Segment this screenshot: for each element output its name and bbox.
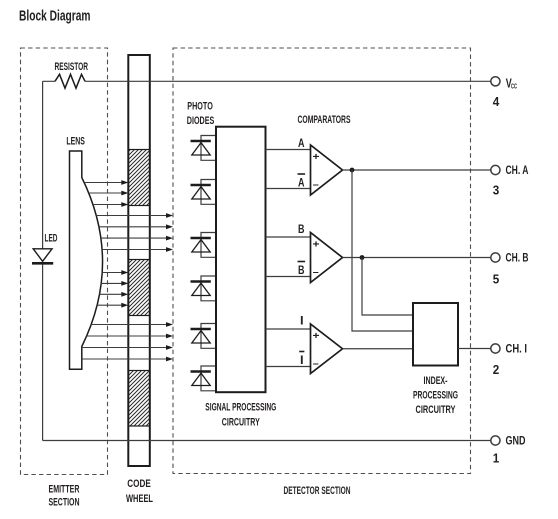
svg-text:WHEEL: WHEEL	[126, 493, 153, 505]
svg-text:DIODES: DIODES	[187, 115, 215, 127]
svg-text:A: A	[298, 176, 305, 190]
signal processing circuitry box	[216, 127, 266, 393]
light ray arrow (through code wheel) 7	[82, 345, 173, 350]
svg-text:+: +	[313, 330, 320, 342]
comparator U2	[311, 233, 343, 283]
wire: comparator B output to CH.B terminal	[343, 257, 491, 259]
svg-text:CIRCUITRY: CIRCUITRY	[222, 417, 260, 429]
svg-text:CODE: CODE	[127, 478, 151, 490]
junction dot on B output	[360, 255, 365, 260]
svg-text:EMITTER: EMITTER	[49, 484, 80, 496]
svg-text:5: 5	[493, 273, 500, 287]
index processing circuitry box	[413, 303, 458, 366]
svg-text:Block Diagram: Block Diagram	[19, 8, 91, 25]
svg-text:A: A	[298, 136, 305, 150]
light ray arrow (blocked at code wheel) 4	[102, 270, 128, 275]
light ray arrow (through code wheel) 4	[102, 247, 173, 252]
wire: signal box output B to comparator input	[266, 236, 311, 238]
light ray arrow (blocked at code wheel) 1	[84, 180, 128, 185]
svg-text:–: –	[313, 179, 319, 191]
code wheel hatched segment 1	[128, 150, 150, 206]
light ray arrow (through code wheel) 8	[82, 357, 173, 362]
wire: signal box output I-bar to comparator input	[266, 366, 311, 368]
svg-text:PHOTO: PHOTO	[187, 101, 213, 113]
svg-text:SECTION: SECTION	[49, 497, 80, 509]
terminal pin 3: CH. A	[491, 164, 529, 198]
light ray arrow (through code wheel) 6	[87, 334, 173, 339]
LED	[32, 249, 53, 263]
svg-text:GND: GND	[506, 435, 526, 448]
svg-text:–: –	[313, 358, 319, 370]
lens	[70, 151, 103, 369]
photodiode PD2	[191, 180, 217, 205]
svg-text:PROCESSING: PROCESSING	[413, 390, 458, 402]
terminal pin 1: GND	[491, 435, 526, 466]
light ray arrow (through code wheel) 3	[101, 236, 173, 241]
svg-text:LENS: LENS	[66, 136, 85, 148]
wire: signal box output A to comparator input	[266, 149, 311, 151]
wire: comparator I output to index box	[343, 348, 414, 350]
svg-text:4: 4	[493, 95, 500, 109]
comparator U3	[311, 324, 343, 374]
wire: signal box output I to comparator input	[266, 328, 311, 330]
svg-text:CH. A: CH. A	[506, 164, 529, 177]
wire: Vcc net from resistor to Vcc terminal	[43, 80, 491, 82]
svg-text:I: I	[300, 314, 304, 328]
light ray arrow (blocked at code wheel) 7	[97, 303, 128, 308]
svg-text:LED: LED	[45, 233, 58, 245]
comparator U1	[311, 145, 343, 195]
wire: signal box output A-bar to comparator input	[266, 188, 311, 190]
wire: left vertical from resistor down to LED anode	[42, 81, 44, 249]
photodiode PD5	[191, 324, 217, 349]
code wheel	[128, 55, 150, 466]
svg-text:INDEX-: INDEX-	[424, 375, 448, 387]
wire: comparator A output to CH.A terminal	[343, 169, 491, 171]
svg-text:2: 2	[493, 363, 500, 377]
light ray arrow (blocked at code wheel) 6	[100, 292, 129, 297]
resistor R (RESISTOR)	[55, 74, 85, 88]
svg-text:DETECTOR SECTION: DETECTOR SECTION	[284, 485, 351, 497]
svg-text:CH. I: CH. I	[506, 343, 528, 356]
svg-text:CH. B: CH. B	[506, 252, 529, 265]
svg-text:–: –	[313, 266, 319, 278]
light ray arrow (blocked at code wheel) 5	[101, 281, 128, 286]
light ray arrow (through code wheel) 1	[96, 213, 173, 218]
junction dot on A output	[350, 168, 355, 173]
terminal pin 5: CH. B	[491, 252, 529, 287]
svg-text:B: B	[298, 222, 305, 236]
wire: A branch down to index box	[352, 170, 413, 331]
wire: index box output to CH.I terminal	[458, 348, 491, 350]
wire: LED cathode down to GND rail	[42, 265, 44, 441]
svg-text:SIGNAL PROCESSING: SIGNAL PROCESSING	[205, 402, 276, 414]
light ray arrow (through code wheel) 2	[99, 224, 173, 229]
svg-text:RESISTOR: RESISTOR	[55, 61, 89, 73]
svg-text:I: I	[300, 353, 304, 367]
light ray arrow (blocked at code wheel) 3	[93, 202, 128, 207]
svg-text:CIRCUITRY: CIRCUITRY	[416, 404, 456, 416]
light ray arrow (through code wheel) 5	[91, 322, 173, 327]
photodiode PD3	[191, 233, 217, 258]
wire: B branch down to index box	[362, 258, 413, 316]
svg-text:+: +	[313, 239, 320, 251]
photodiode PD4	[191, 276, 217, 301]
wire: signal box output B-bar to comparator input	[266, 276, 311, 278]
svg-text:B: B	[298, 263, 305, 277]
photodiode PD1	[191, 136, 217, 161]
terminal pin 2: CH. I	[491, 343, 527, 378]
light ray arrow (blocked at code wheel) 2	[89, 191, 129, 196]
svg-text:CC: CC	[511, 82, 517, 91]
code wheel hatched segment 3	[128, 371, 150, 427]
detector section dashed box	[173, 48, 471, 474]
svg-text:COMPARATORS: COMPARATORS	[298, 114, 351, 126]
terminal pin 4: Vcc	[491, 77, 518, 110]
wire: GND rail to GND terminal	[43, 440, 491, 442]
photodiode PD6	[191, 366, 217, 391]
svg-text:3: 3	[493, 184, 500, 198]
code wheel hatched segment 2	[128, 260, 150, 316]
svg-text:1: 1	[493, 452, 500, 466]
emitter section dashed box	[21, 48, 108, 475]
svg-text:+: +	[313, 151, 320, 163]
